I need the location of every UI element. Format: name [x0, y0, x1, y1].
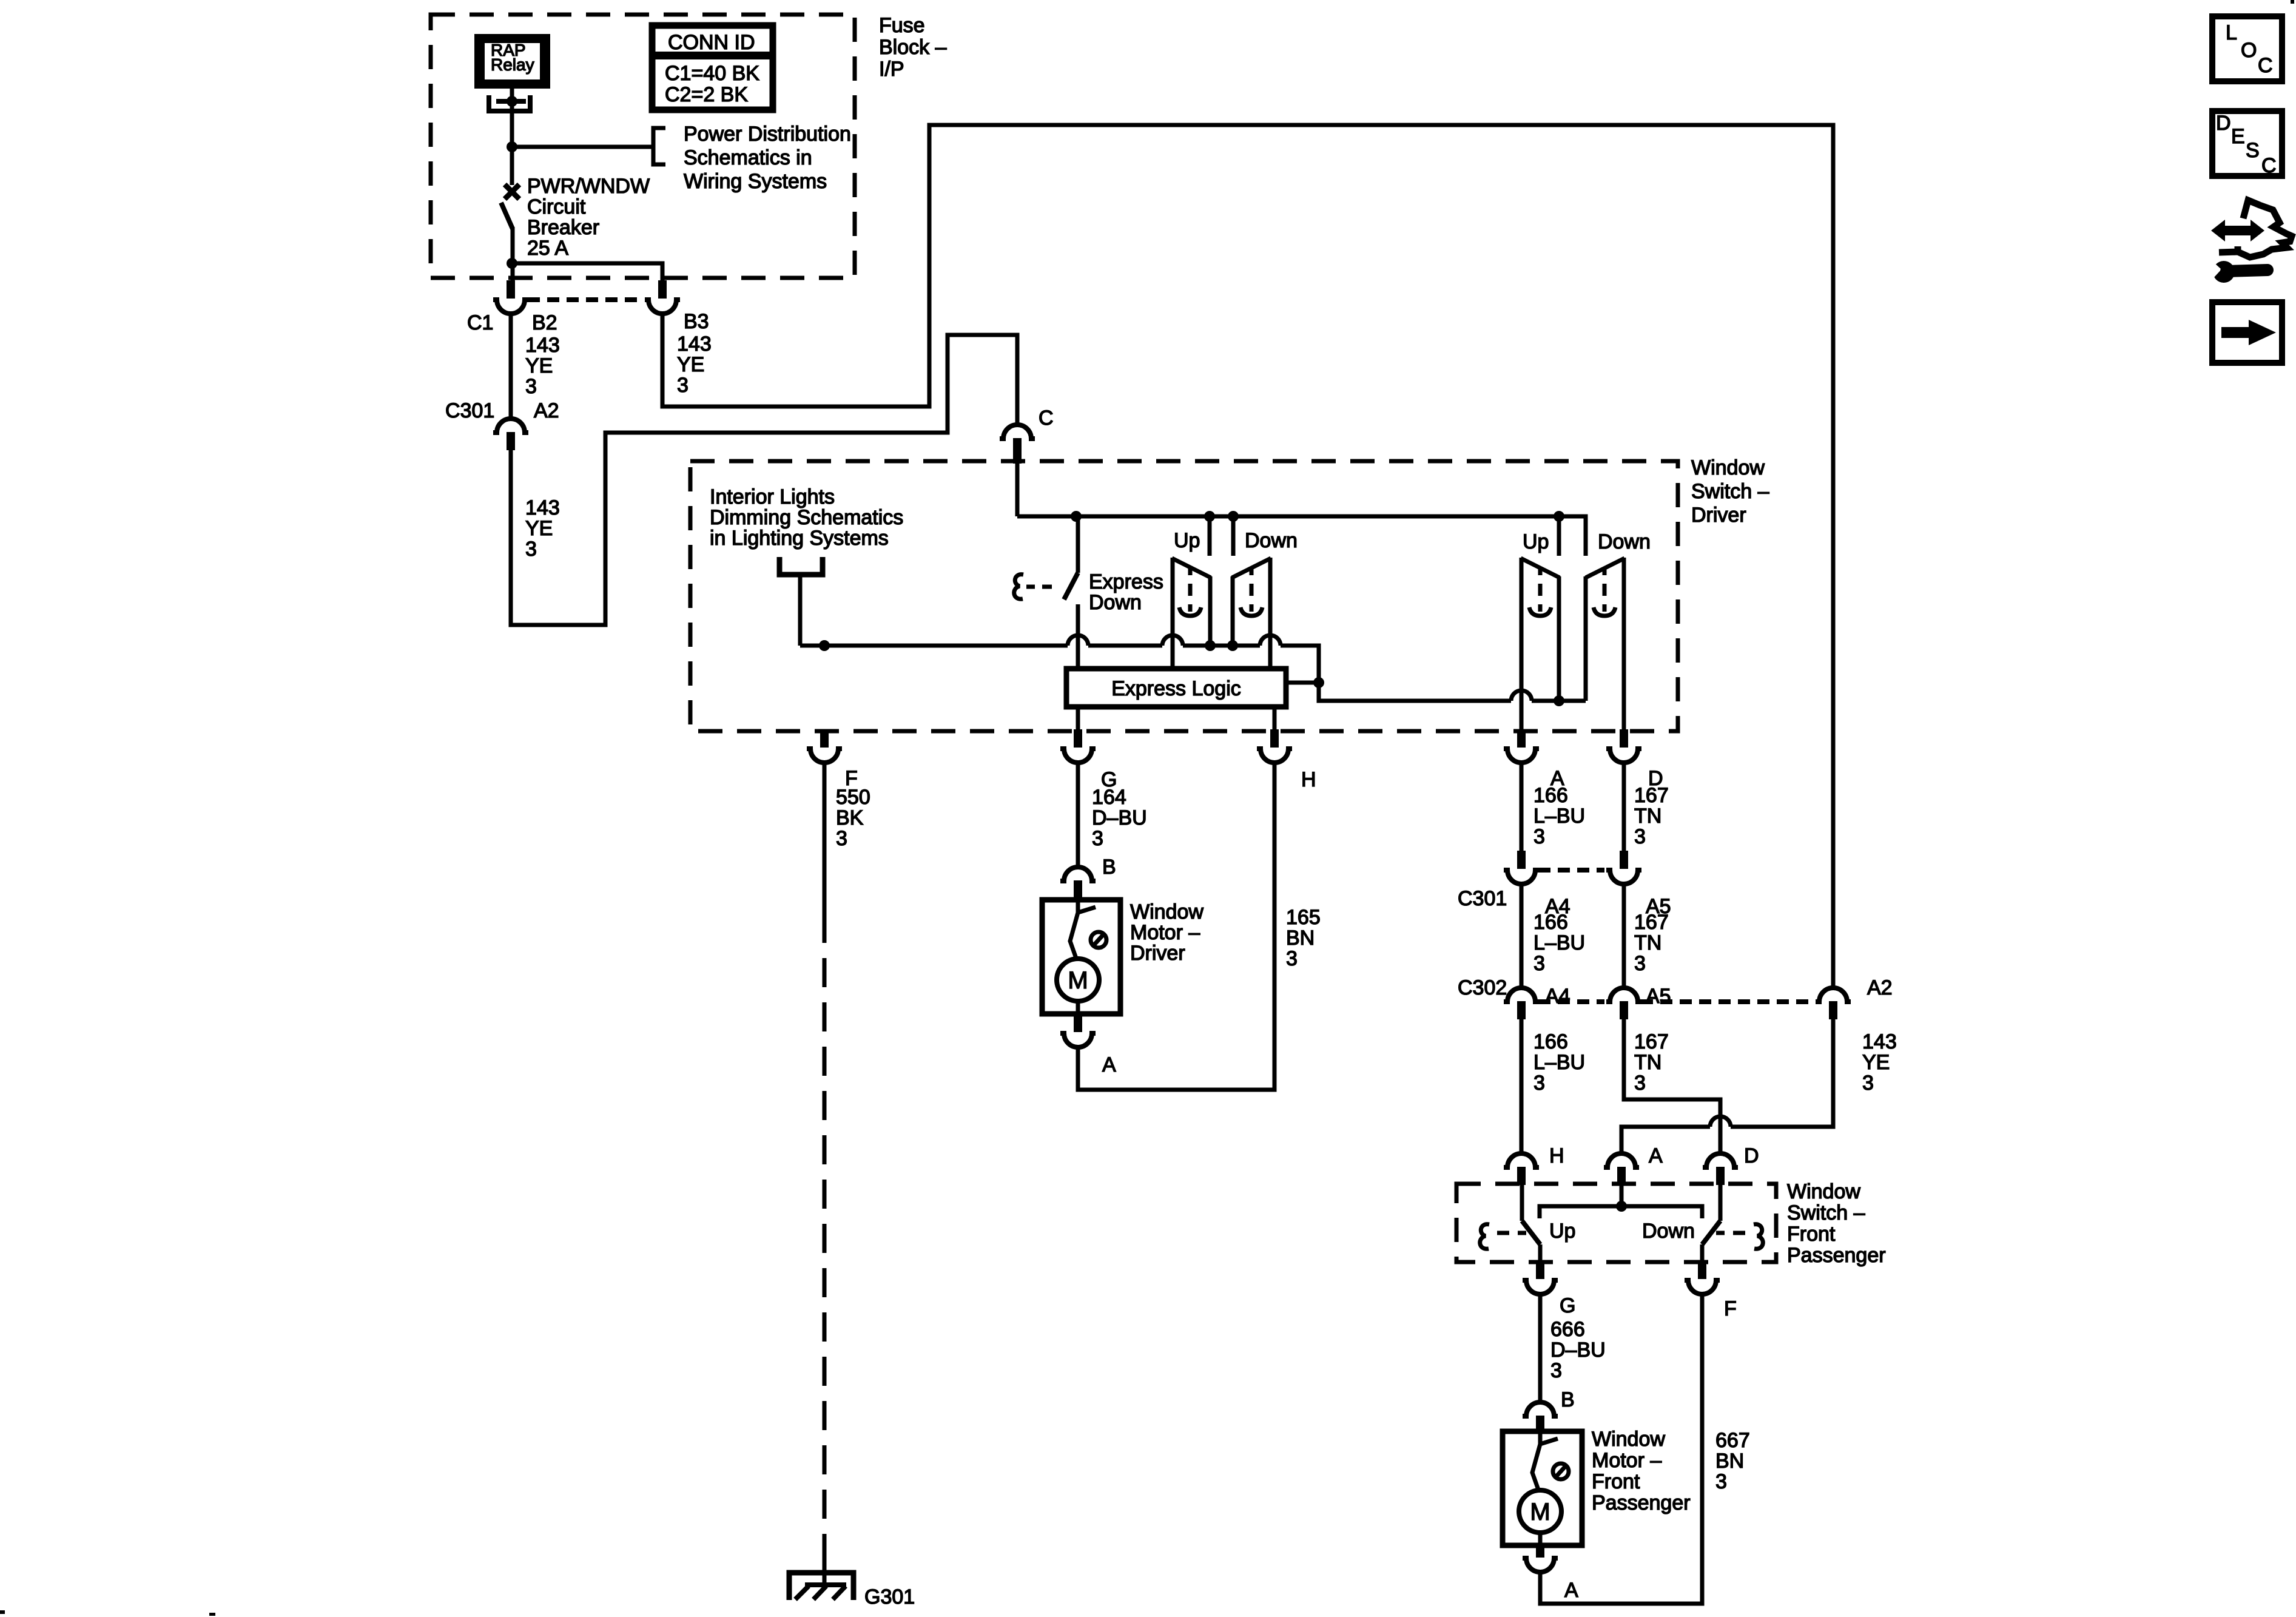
switch up contact driver right (trapezoid) [1521, 558, 1560, 729]
dashed link express down [1026, 585, 1052, 589]
node power feed junction [507, 141, 517, 152]
wire express logic output to right switches [1319, 683, 1586, 701]
stray mark bottom [209, 1613, 215, 1616]
switch down contact driver (trapezoid) [1232, 558, 1271, 669]
connector A window motor front passenger [1523, 1545, 1558, 1572]
switch up contact driver (trapezoid) [1172, 558, 1211, 669]
svg-text:Interior Lights: Interior Lights [710, 485, 835, 508]
label wire 167 TN 3 (lower) [1634, 1030, 1669, 1095]
node common bar [1616, 1201, 1627, 1212]
svg-text:Circuit: Circuit [527, 195, 586, 218]
svg-text:166: 166 [1533, 1030, 1568, 1053]
svg-text:O: O [2241, 39, 2257, 62]
wire down blade to F [1700, 1244, 1705, 1261]
label wire 143 YE 3 (B3) [677, 333, 712, 397]
wire motor A to H [1078, 763, 1274, 1090]
wire C302 A4 to passenger H [1520, 1019, 1524, 1152]
connector C1 pin B2 [493, 280, 528, 314]
connector A window switch driver [1504, 729, 1539, 763]
svg-text:3: 3 [1092, 827, 1103, 850]
svg-text:L–BU: L–BU [1533, 1051, 1585, 1074]
label Window Motor - Driver [1130, 900, 1204, 965]
node down contact tap [1228, 511, 1239, 522]
svg-text:B2: B2 [532, 311, 557, 334]
wire breaker output to B3 drop [512, 263, 662, 280]
connector C302 pin A4 [1504, 988, 1539, 1019]
wire C301 A4 to C302 [1520, 884, 1524, 987]
svg-text:A: A [1564, 1579, 1578, 1602]
wire F to ground solid part [823, 763, 827, 914]
node up inner contact [1205, 640, 1216, 651]
svg-text:Driver: Driver [1130, 942, 1185, 965]
relay terminal bar [496, 99, 526, 104]
svg-text:TN: TN [1634, 931, 1661, 954]
wire G to motor B passenger [1538, 1294, 1543, 1401]
detent symbol up driver right [1529, 568, 1551, 616]
svg-text:666: 666 [1550, 1318, 1585, 1341]
node express logic output [1313, 677, 1324, 688]
svg-text:M: M [1530, 1499, 1550, 1525]
wire passenger A pin to common bar [1620, 1185, 1624, 1206]
wire C301 A5 to C302 [1622, 884, 1626, 987]
svg-text:A5: A5 [1646, 985, 1671, 1008]
breaker symbol motor passenger [1532, 1431, 1569, 1491]
connector C301 pin A2 [493, 419, 528, 450]
svg-text:C301: C301 [445, 399, 494, 422]
svg-text:E: E [2231, 125, 2245, 148]
node down inner contact [1227, 640, 1238, 651]
connector row dotted line C301 [1538, 868, 1604, 873]
svg-text:F: F [1724, 1297, 1737, 1320]
breaker symbol motor driver [1070, 900, 1106, 960]
window motor driver box [1042, 900, 1120, 1014]
svg-text:Express Logic: Express Logic [1111, 677, 1241, 700]
svg-text:Breaker: Breaker [527, 216, 599, 239]
label wire 167 TN 3 (mid) [1634, 911, 1669, 975]
connector C301 pin A4 [1504, 851, 1539, 884]
label Window Motor - Front Passenger [1592, 1428, 1691, 1514]
wire G to motor B [1076, 763, 1080, 866]
node right up tap [1554, 511, 1564, 522]
svg-text:C1: C1 [467, 311, 493, 334]
wire down stub driver left [1231, 516, 1236, 556]
svg-text:C2=2 BK: C2=2 BK [665, 83, 748, 106]
wire motor to A pin [1076, 1001, 1080, 1014]
label Window Switch - Driver [1691, 456, 1769, 527]
stray mark bottom left [0, 1610, 5, 1614]
switch down blade passenger [1702, 1221, 1720, 1244]
svg-text:Down: Down [1642, 1220, 1695, 1243]
wire right up stub [1557, 516, 1561, 556]
svg-text:in Lighting Systems: in Lighting Systems [710, 527, 889, 550]
wire C302 A5 to passenger D [1624, 1019, 1720, 1152]
wire express logic outputs to G and H [1078, 707, 1274, 729]
bracket Power Distribution reference [653, 128, 665, 164]
svg-text:YE: YE [677, 353, 704, 376]
svg-text:3: 3 [1550, 1359, 1562, 1382]
svg-text:BN: BN [1715, 1450, 1744, 1473]
momentary symbol passenger down [1754, 1224, 1763, 1249]
wire B2 to C301 [509, 314, 513, 417]
wire up blade to G [1538, 1244, 1543, 1261]
relay K RAP Relay box [474, 34, 550, 89]
connector C window switch driver [1000, 425, 1035, 464]
svg-text:165: 165 [1286, 906, 1321, 929]
express logic box [1066, 669, 1286, 707]
label Express Down [1089, 570, 1163, 614]
wire interior lights to dimming bus [798, 575, 803, 646]
svg-text:B: B [1561, 1388, 1575, 1411]
svg-text:3: 3 [1286, 947, 1298, 970]
svg-text:3: 3 [836, 827, 847, 850]
svg-text:S: S [2246, 139, 2260, 162]
svg-text:143: 143 [525, 334, 560, 357]
svg-text:Relay: Relay [491, 55, 534, 74]
svg-text:A: A [1649, 1144, 1663, 1167]
node breaker output [507, 258, 517, 269]
connector G window switch front passenger [1523, 1261, 1558, 1294]
switch express down stub [1076, 516, 1080, 573]
svg-text:143: 143 [525, 496, 560, 519]
connector C302 pin A5 [1606, 988, 1641, 1019]
wire junction to power distribution bracket [512, 145, 653, 149]
switch express down fixed contact [1076, 604, 1080, 669]
svg-text:C302: C302 [1458, 976, 1507, 999]
label wire 165 BN 3 [1286, 906, 1321, 970]
wire passenger D pin to blade [1719, 1185, 1723, 1221]
svg-text:D–BU: D–BU [1092, 806, 1147, 829]
wire 143 YE from C301 to window switch driver pin C [511, 335, 1017, 625]
svg-text:550: 550 [836, 786, 870, 809]
svg-text:Window: Window [1592, 1428, 1665, 1451]
svg-text:3: 3 [1533, 1072, 1545, 1095]
svg-text:G301: G301 [864, 1585, 915, 1609]
wire passenger H pin to blade [1520, 1185, 1524, 1221]
svg-text:Motor –: Motor – [1592, 1449, 1661, 1472]
connector C302 pin A2 [1816, 988, 1851, 1019]
detent symbol up driver [1179, 568, 1201, 616]
svg-text:Wiring Systems: Wiring Systems [684, 170, 827, 193]
svg-text:D: D [1744, 1144, 1759, 1167]
svg-text:Front: Front [1592, 1470, 1640, 1493]
svg-text:667: 667 [1715, 1429, 1750, 1452]
svg-text:164: 164 [1092, 786, 1126, 809]
svg-text:3: 3 [1634, 1072, 1646, 1095]
svg-text:C: C [2258, 54, 2273, 77]
hop D wire over A wire [1710, 1116, 1731, 1127]
hop over right up contact [1511, 690, 1532, 701]
stray mark top right [2291, 0, 2294, 4]
svg-text:Power Distribution: Power Distribution [684, 123, 851, 146]
detent symbol down driver right [1594, 568, 1615, 616]
svg-text:Up: Up [1523, 530, 1549, 553]
connector row dotted line C302 left [1538, 999, 1604, 1004]
svg-text:Passenger: Passenger [1787, 1244, 1886, 1267]
svg-text:TN: TN [1634, 805, 1661, 828]
wire A2 to passenger A [1621, 1019, 1833, 1152]
node relay terminal [507, 96, 517, 107]
window motor front passenger box [1503, 1431, 1582, 1545]
svg-text:L–BU: L–BU [1533, 931, 1585, 954]
fuse block I/P dashed box [431, 15, 855, 278]
svg-text:Schematics in: Schematics in [684, 146, 812, 169]
connector C301 pin A5 [1606, 851, 1641, 884]
icon right arrow box [2212, 302, 2282, 363]
label wire 167 TN 3 (top) [1634, 784, 1669, 848]
svg-text:D: D [2216, 112, 2231, 135]
circuit breaker blade PWR/WNDW 25A [501, 203, 513, 229]
svg-text:3: 3 [677, 374, 688, 397]
svg-text:Up: Up [1549, 1220, 1575, 1243]
bracket interior lights reference [779, 557, 823, 575]
svg-text:167: 167 [1634, 784, 1669, 807]
node right up inner contact [1554, 695, 1564, 706]
label Window Switch - Front Passenger [1787, 1180, 1886, 1267]
wire dimming bus with hops [800, 646, 1319, 683]
svg-text:Up: Up [1174, 529, 1200, 552]
label wire 550 BK 3 [836, 786, 870, 850]
label Power Distribution Schematics in Wiring Systems [684, 123, 851, 193]
hop over down contact [1260, 635, 1281, 646]
label wire 166 L-BU 3 (lower) [1533, 1030, 1585, 1095]
svg-text:A2: A2 [534, 399, 559, 422]
dashed link passenger up [1497, 1231, 1526, 1235]
svg-text:Front: Front [1787, 1223, 1836, 1246]
svg-text:BK: BK [836, 806, 864, 829]
label wire 666 D-BU 3 [1550, 1318, 1606, 1382]
svg-text:3: 3 [1533, 952, 1545, 975]
wire D to C301 [1622, 763, 1626, 851]
connector B window motor front passenger [1523, 1402, 1558, 1431]
icon wrench [2202, 257, 2267, 283]
node F tap [819, 640, 830, 651]
svg-text:166: 166 [1533, 911, 1568, 934]
svg-text:Dimming Schematics: Dimming Schematics [710, 506, 903, 529]
wire switch feed bus [1017, 516, 1586, 556]
icon component view panel outline [2219, 200, 2292, 257]
svg-text:Down: Down [1598, 530, 1651, 553]
wire motor to A pin passenger [1538, 1533, 1543, 1545]
svg-text:Switch –: Switch – [1691, 480, 1769, 503]
svg-text:YE: YE [525, 354, 553, 377]
svg-text:3: 3 [525, 538, 537, 561]
svg-text:166: 166 [1533, 784, 1568, 807]
wire up stub driver left [1208, 516, 1212, 556]
ground G301 symbol [789, 1549, 853, 1600]
connector F window switch front passenger [1685, 1261, 1720, 1294]
svg-text:YE: YE [1862, 1051, 1890, 1074]
svg-text:Window: Window [1130, 900, 1204, 923]
icon LOC box [2212, 16, 2282, 81]
svg-text:3: 3 [1634, 825, 1646, 848]
svg-text:3: 3 [1533, 825, 1545, 848]
wire express logic right stub [1286, 681, 1319, 685]
hop over express down contact [1068, 635, 1088, 646]
label wire 143 YE 3 (lower) [1862, 1030, 1897, 1095]
svg-text:3: 3 [1862, 1072, 1874, 1095]
svg-text:BN: BN [1286, 927, 1315, 950]
icon DESC box [2212, 111, 2282, 177]
svg-text:H: H [1301, 768, 1316, 791]
connector H window switch driver [1257, 729, 1292, 763]
svg-text:YE: YE [525, 517, 553, 540]
svg-text:C: C [1039, 407, 1054, 430]
icon component view double arrow [2211, 220, 2264, 241]
detent symbol down driver [1241, 568, 1262, 616]
svg-text:D–BU: D–BU [1550, 1338, 1606, 1362]
switch express down blade [1064, 573, 1078, 599]
label wire 143 YE 3 (A2 below C301) [525, 496, 560, 561]
svg-text:143: 143 [1862, 1030, 1897, 1053]
svg-text:167: 167 [1634, 911, 1669, 934]
svg-text:H: H [1549, 1144, 1564, 1167]
CONN ID table [652, 25, 773, 110]
svg-text:3: 3 [1715, 1470, 1727, 1493]
connector A window switch front passenger [1604, 1153, 1639, 1185]
wire F to ground dashed part [823, 914, 827, 1553]
connector row dotted line C1 [528, 297, 644, 302]
svg-text:Express: Express [1089, 570, 1163, 593]
connector B window motor driver [1060, 867, 1096, 899]
svg-text:M: M [1068, 967, 1088, 994]
relay output terminal bracket [489, 95, 530, 111]
svg-text:A4: A4 [1545, 985, 1571, 1008]
wire RAP relay to junction [510, 89, 514, 185]
svg-text:A: A [1102, 1053, 1116, 1076]
svg-text:3: 3 [525, 375, 537, 398]
fuse element X mark PWR/WNDW [505, 184, 519, 199]
connector C1 pin B3 [645, 280, 680, 314]
svg-text:L–BU: L–BU [1533, 805, 1585, 828]
svg-text:Down: Down [1089, 591, 1142, 614]
svg-text:B: B [1102, 856, 1116, 879]
switch down contact driver right (trapezoid) [1586, 558, 1624, 729]
wire 143 YE from B3 to A2 right side [662, 125, 1833, 987]
svg-text:Window: Window [1787, 1180, 1860, 1203]
dashed link passenger down [1716, 1231, 1745, 1235]
common bar passenger switch [1540, 1206, 1702, 1218]
label wire 164 D-BU 3 [1092, 786, 1147, 850]
connector D window switch front passenger [1703, 1153, 1738, 1185]
svg-text:G: G [1560, 1294, 1575, 1317]
momentary symbol passenger up [1480, 1224, 1489, 1249]
label wire 143 YE 3 (B2) [525, 334, 560, 398]
label wire 166 L-BU 3 (mid) [1533, 911, 1585, 975]
window switch driver dashed box [690, 461, 1678, 731]
svg-text:Motor –: Motor – [1130, 921, 1200, 944]
wire A to C301 [1520, 763, 1524, 851]
svg-text:B3: B3 [684, 310, 709, 333]
label Fuse Block I/P [879, 14, 947, 81]
svg-text:Block –: Block – [879, 36, 947, 59]
svg-text:C301: C301 [1458, 887, 1507, 910]
connector F window switch driver [807, 729, 842, 763]
window switch front passenger dashed box [1456, 1184, 1776, 1262]
label Interior Lights Dimming Schematics in Lighting Systems [710, 485, 903, 550]
svg-text:C: C [2261, 154, 2277, 177]
connector D window switch driver [1606, 729, 1641, 763]
svg-text:167: 167 [1634, 1030, 1669, 1053]
wire breaker to junction [511, 227, 515, 280]
svg-text:Switch –: Switch – [1787, 1201, 1865, 1224]
svg-text:143: 143 [677, 333, 712, 356]
svg-text:TN: TN [1634, 1051, 1661, 1074]
svg-text:25 A: 25 A [527, 237, 568, 260]
label wire 667 BN 3 [1715, 1429, 1750, 1493]
motor M front passenger [1519, 1490, 1561, 1533]
svg-text:I/P: I/P [879, 58, 904, 81]
svg-text:CONN ID: CONN ID [668, 31, 755, 54]
connector A window motor driver [1060, 1014, 1096, 1047]
svg-text:Driver: Driver [1691, 504, 1746, 527]
connector row dotted line C302 to A2 [1641, 999, 1814, 1004]
node up contact tap [1204, 511, 1215, 522]
switch up blade passenger [1522, 1221, 1540, 1244]
connector G window switch driver [1060, 729, 1096, 763]
node express down tap [1071, 511, 1082, 522]
motor M driver [1057, 959, 1099, 1001]
momentary symbol express down [1014, 575, 1023, 599]
svg-text:PWR/WNDW: PWR/WNDW [527, 175, 650, 198]
wire pin C into switch [1015, 456, 1020, 516]
svg-text:3: 3 [1634, 952, 1646, 975]
svg-text:L: L [2226, 21, 2237, 44]
hop over up contact [1162, 635, 1183, 646]
label PWR/WNDW Circuit Breaker 25 A [527, 175, 650, 260]
svg-text:A2: A2 [1867, 976, 1893, 999]
svg-text:Down: Down [1245, 529, 1298, 552]
svg-text:Fuse: Fuse [879, 14, 925, 37]
connector H window switch front passenger [1504, 1153, 1539, 1185]
wire motor A to F passenger [1540, 1294, 1702, 1604]
svg-text:Window: Window [1691, 456, 1765, 479]
label wire 166 L-BU 3 (top) [1533, 784, 1585, 848]
svg-text:C1=40 BK: C1=40 BK [665, 62, 759, 85]
svg-text:Passenger: Passenger [1592, 1491, 1691, 1514]
